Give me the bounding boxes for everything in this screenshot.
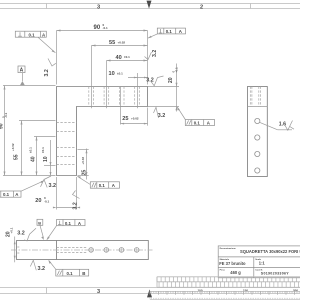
bottom view centerline	[11, 249, 153, 251]
svg-text:90: 90	[0, 123, 5, 129]
svg-text:3.2: 3.2	[38, 266, 46, 272]
svg-text:3: 3	[97, 4, 100, 10]
svg-text:1:1: 1:1	[259, 261, 266, 266]
svg-text:Peso: Peso	[220, 270, 226, 272]
svg-text:3.2: 3.2	[72, 202, 78, 209]
roughness 1.6 note	[260, 121, 295, 131]
side view inner line	[248, 106, 268, 108]
svg-text:-0.1: -0.1	[4, 112, 8, 118]
side view holes	[255, 118, 260, 173]
svg-text:+0.02: +0.02	[81, 157, 85, 165]
svg-text:40: 40	[116, 55, 122, 61]
svg-text:20: 20	[168, 77, 174, 83]
svg-text:10: 10	[43, 156, 49, 162]
comb ticks	[157, 277, 298, 288]
title block	[218, 246, 301, 278]
front view outline	[57, 87, 148, 176]
svg-text:0.1: 0.1	[166, 29, 173, 34]
side view hidden lines	[250, 87, 260, 107]
svg-text:+0.02: +0.02	[131, 116, 139, 120]
svg-text:55: 55	[109, 40, 115, 46]
scale comb band bottom right	[157, 277, 300, 288]
svg-text:±0.1: ±0.1	[28, 147, 32, 153]
front view hidden hole lines top bar	[89, 87, 140, 107]
svg-text:±0.1: ±0.1	[124, 55, 130, 59]
dim 20 bottom view left	[6, 227, 16, 262]
bottom centering triangle	[147, 289, 152, 297]
svg-text:3.2: 3.2	[49, 183, 57, 189]
svg-text:0.1: 0.1	[99, 183, 106, 188]
dim 20 bottom of leg	[35, 177, 80, 210]
roughness 3.2 bottom view below	[30, 260, 45, 272]
svg-text:1.6: 1.6	[279, 122, 286, 128]
svg-text:+0.1: +0.1	[9, 227, 13, 233]
svg-text:3.2: 3.2	[17, 230, 25, 236]
dim 55 left vertical	[11, 121, 56, 176]
roughness 3.2 rotated below leg right	[72, 191, 79, 210]
fcf perp 0.1 A below leg	[77, 176, 120, 188]
dim 10 left vertical	[41, 140, 56, 176]
roughness 3.2 below leg bottom	[41, 176, 57, 189]
dim 90 left vertical	[0, 86, 56, 176]
dim 10 top	[109, 71, 148, 108]
fcf perp 0.1 A top-right	[148, 28, 186, 38]
dim 40 left vertical	[28, 137, 55, 176]
svg-text:0.1: 0.1	[65, 221, 72, 226]
svg-text:10: 10	[109, 71, 115, 77]
svg-text:460 g: 460 g	[230, 270, 241, 275]
front view hidden hole lines leg	[57, 123, 77, 165]
bottom view hole cross ticks	[88, 247, 139, 253]
svg-text:0.1: 0.1	[3, 192, 10, 197]
svg-text:100: 100	[198, 288, 203, 292]
bottom view internal line	[56, 241, 58, 260]
svg-text:FE 37 brunito: FE 37 brunito	[219, 261, 246, 266]
dim 90 top	[57, 23, 148, 85]
svg-text:200: 200	[293, 288, 298, 292]
svg-text:SQUADRETTA 30x90x22 FORI 9: SQUADRETTA 30x90x22 FORI 9	[240, 249, 300, 254]
svg-text:90: 90	[94, 25, 101, 31]
title block labels	[220, 248, 264, 272]
svg-text:20: 20	[35, 198, 41, 204]
fcf perp 0.1 A top-left	[15, 31, 55, 53]
svg-text:+0.02: +0.02	[118, 41, 126, 45]
svg-text:2: 2	[200, 5, 203, 11]
svg-text:55: 55	[13, 154, 19, 160]
dim 25 mid (hole to edge)	[121, 87, 148, 126]
side view outline	[248, 87, 268, 177]
bottom view left ticks	[17, 247, 19, 253]
top centering triangle	[147, 1, 152, 9]
fcf perp 0.1 B below bottom view	[48, 260, 88, 276]
svg-text:-0.1: -0.1	[44, 199, 50, 203]
svg-text:B: B	[38, 220, 41, 225]
roughness 3.2 bottom view top-left	[17, 228, 36, 241]
svg-text:S0190203306Y: S0190203306Y	[261, 272, 289, 276]
roughness 3.2 top bar (horizontal)	[146, 76, 163, 86]
bottom view holes	[89, 248, 139, 253]
bottom view hidden hole lines	[57, 247, 88, 252]
fcf perp 0.1 A mid-right	[177, 107, 215, 126]
svg-text:3.2: 3.2	[152, 50, 158, 57]
svg-text:3: 3	[97, 289, 100, 295]
title block text	[219, 249, 302, 276]
fcf 0.1 A left edge	[0, 180, 45, 197]
roughness 3.2 right ext (rotated)	[145, 50, 159, 60]
svg-text:3.2: 3.2	[44, 69, 50, 76]
svg-text:-0.1: -0.1	[175, 67, 179, 73]
svg-text:0.1: 0.1	[194, 121, 201, 126]
svg-text:3.2: 3.2	[158, 113, 166, 119]
datum B bottom view	[37, 219, 44, 240]
svg-text:0.1: 0.1	[29, 32, 36, 37]
roughness 3.2 inner corner right	[154, 107, 166, 119]
svg-text:B: B	[82, 271, 85, 276]
svg-text:Denominazione: Denominazione	[220, 248, 237, 250]
svg-text:±0.1: ±0.1	[41, 147, 45, 153]
svg-text:-0.1: -0.1	[103, 26, 109, 30]
svg-text:±0.1: ±0.1	[117, 71, 123, 75]
svg-text:A: A	[20, 68, 24, 74]
datum A	[18, 66, 25, 85]
dim 55 top	[92, 40, 148, 108]
dim 40 top	[107, 55, 148, 109]
frame bottom lines	[0, 288, 300, 294]
fcf perp 0.1 A bottom view top	[47, 220, 86, 241]
mm ruler	[150, 290, 300, 292]
svg-text:0.1: 0.1	[67, 271, 74, 276]
dim 20 right vertical	[148, 64, 180, 112]
bottom view outline	[17, 241, 149, 260]
dim 25 right of leg	[78, 149, 89, 180]
svg-text:25: 25	[122, 116, 128, 122]
svg-text:+0.02: +0.02	[11, 143, 15, 151]
svg-text:40: 40	[31, 156, 37, 162]
svg-text:3.2: 3.2	[146, 77, 154, 83]
svg-text:25: 25	[81, 170, 87, 176]
frame top lines	[0, 4, 300, 9]
roughness 3.2 left ext (rotated)	[44, 59, 56, 77]
